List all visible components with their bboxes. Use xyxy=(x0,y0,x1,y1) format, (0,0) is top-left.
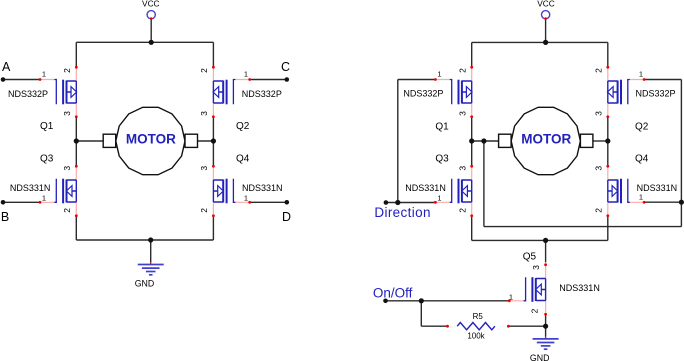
junction VCC rail xyxy=(149,40,154,45)
wire right leg upper xyxy=(212,42,214,67)
wire top rail xyxy=(472,41,608,43)
svg-text:Q4: Q4 xyxy=(236,154,250,165)
wire motor right stub xyxy=(593,140,608,142)
wire left gate tie top xyxy=(398,79,436,81)
svg-text:R5: R5 xyxy=(473,312,484,321)
transistor Q2 NDS332P (right circuit) xyxy=(606,66,645,118)
junction motor left node xyxy=(74,138,79,143)
svg-text:3: 3 xyxy=(458,111,468,116)
wire right leg middle xyxy=(607,117,609,166)
junction right gate tie xyxy=(679,200,684,205)
svg-text:2: 2 xyxy=(458,68,468,73)
wire cross coupling horizontal xyxy=(484,226,682,228)
transistor Q1 NDS332P (right circuit) xyxy=(434,66,473,118)
power VCC xyxy=(147,11,155,20)
wire R5 left lead xyxy=(421,325,447,327)
svg-text:2: 2 xyxy=(199,208,209,213)
svg-text:3: 3 xyxy=(199,111,209,116)
junction source rail to Q5 xyxy=(543,238,548,243)
wire output C xyxy=(250,79,287,81)
svg-text:2: 2 xyxy=(594,68,604,73)
svg-text:3: 3 xyxy=(594,111,604,116)
svg-text:2: 2 xyxy=(199,68,209,73)
wire VCC stem xyxy=(150,19,152,43)
wire cross coupling vertical xyxy=(483,141,485,227)
wire right gate tie top xyxy=(644,79,681,81)
wire left leg lower xyxy=(471,216,473,240)
wire bottom rail xyxy=(472,239,608,241)
junction On/Off to R5 xyxy=(419,298,424,303)
svg-text:B: B xyxy=(1,210,9,224)
transistor Q2 NDS332P xyxy=(212,66,251,118)
svg-text:VCC: VCC xyxy=(142,0,160,8)
svg-text:NDS331N: NDS331N xyxy=(242,183,283,193)
wire right leg upper xyxy=(607,42,609,67)
terminal B xyxy=(1,200,6,205)
junction Direction tie xyxy=(395,200,400,205)
svg-text:VCC: VCC xyxy=(537,0,555,8)
wire R5 branch down xyxy=(420,301,422,326)
svg-text:3: 3 xyxy=(594,166,604,171)
svg-text:1: 1 xyxy=(42,193,46,202)
svg-text:1: 1 xyxy=(437,193,441,202)
svg-text:Q3: Q3 xyxy=(435,154,449,165)
svg-text:NDS331N: NDS331N xyxy=(559,283,600,293)
svg-text:1: 1 xyxy=(244,193,248,202)
wire motor left stub xyxy=(472,140,499,142)
ground xyxy=(138,262,164,275)
junction ground rail xyxy=(148,237,153,242)
terminal C xyxy=(285,77,290,82)
svg-text:3: 3 xyxy=(458,166,468,171)
svg-text:Q2: Q2 xyxy=(635,122,649,133)
svg-text:2: 2 xyxy=(594,208,604,213)
svg-text:NDS331N: NDS331N xyxy=(405,183,446,193)
motor M2 xyxy=(499,107,593,174)
wire R5 right lead xyxy=(508,325,545,327)
wire On/Off xyxy=(386,300,510,302)
wire left gate tie vertical xyxy=(397,80,399,203)
terminal Direction xyxy=(384,200,389,205)
svg-text:Direction: Direction xyxy=(374,205,430,220)
wire right leg lower xyxy=(212,216,214,240)
wire Q5 drain xyxy=(545,240,547,262)
transistor Q3 NDS331N (right circuit) xyxy=(434,165,473,217)
svg-text:A: A xyxy=(2,60,11,74)
svg-text:NDS332P: NDS332P xyxy=(8,89,48,99)
svg-text:C: C xyxy=(281,60,290,74)
junction Q5 source GND xyxy=(543,324,548,329)
svg-text:1: 1 xyxy=(639,70,643,79)
svg-text:Q3: Q3 xyxy=(40,154,54,165)
svg-text:1: 1 xyxy=(437,70,441,79)
svg-text:3: 3 xyxy=(62,166,72,171)
svg-text:Q4: Q4 xyxy=(635,154,649,165)
wire left leg upper xyxy=(471,42,473,67)
resistor R5 xyxy=(446,323,510,330)
wire GND stem xyxy=(545,326,547,336)
wire motor right stub xyxy=(197,140,213,142)
power VCC (right) xyxy=(542,11,550,20)
junction cross-coupling tap xyxy=(481,138,486,143)
svg-text:1: 1 xyxy=(639,193,643,202)
svg-text:NDS331N: NDS331N xyxy=(10,183,51,193)
svg-text:NDS332P: NDS332P xyxy=(242,89,282,99)
svg-text:NDS332P: NDS332P xyxy=(403,88,443,98)
wire input A xyxy=(3,79,40,81)
motor M1 xyxy=(103,107,197,174)
wire right leg middle xyxy=(212,117,214,166)
svg-text:Q5: Q5 xyxy=(523,252,537,263)
svg-text:Q2: Q2 xyxy=(236,121,250,132)
wire Direction xyxy=(386,202,436,204)
svg-text:100k: 100k xyxy=(467,332,485,341)
svg-text:MOTOR: MOTOR xyxy=(126,132,176,147)
terminal On/Off xyxy=(383,299,388,304)
junction motor left node (right) xyxy=(469,138,474,143)
svg-text:Q1: Q1 xyxy=(40,121,54,132)
wire Q4 gate xyxy=(644,201,681,203)
svg-text:2: 2 xyxy=(458,208,468,213)
ground (right) xyxy=(533,337,559,350)
wire motor left stub xyxy=(76,140,103,142)
wire left leg upper xyxy=(75,42,77,67)
svg-text:2: 2 xyxy=(62,68,72,73)
wire Q5 source xyxy=(545,314,547,326)
svg-text:Q1: Q1 xyxy=(435,122,449,133)
junction motor right node xyxy=(211,138,216,143)
wire top rail xyxy=(76,41,213,43)
svg-text:NDS332P: NDS332P xyxy=(636,88,676,98)
terminal A xyxy=(1,77,6,82)
svg-text:MOTOR: MOTOR xyxy=(521,132,571,147)
svg-text:D: D xyxy=(282,210,291,224)
junction VCC rail (right) xyxy=(543,40,548,45)
svg-text:3: 3 xyxy=(62,111,72,116)
wire input B xyxy=(3,201,40,203)
wire right gate tie vertical xyxy=(680,80,682,227)
wire GND stem xyxy=(150,240,152,262)
transistor Q1 NDS332P xyxy=(39,66,78,118)
svg-text:3: 3 xyxy=(199,166,209,171)
transistor Q4 NDS331N xyxy=(212,165,251,217)
svg-text:1: 1 xyxy=(42,70,46,79)
svg-text:On/Off: On/Off xyxy=(373,286,413,301)
transistor Q3 NDS331N xyxy=(39,165,78,217)
junction motor right node (right) xyxy=(605,138,610,143)
svg-text:2: 2 xyxy=(62,208,72,213)
transistor Q5 NDS331N xyxy=(508,263,547,315)
svg-text:GND: GND xyxy=(530,353,550,361)
wire output D xyxy=(250,201,287,203)
wire right leg lower xyxy=(607,216,609,240)
terminal D xyxy=(285,200,290,205)
svg-text:1: 1 xyxy=(244,70,248,79)
svg-text:3: 3 xyxy=(531,265,541,270)
transistor Q4 NDS331N (right circuit) xyxy=(606,165,645,217)
wire VCC stem xyxy=(545,19,547,43)
wire left leg middle xyxy=(75,117,77,166)
svg-text:2: 2 xyxy=(529,308,539,313)
wire bottom rail xyxy=(76,239,213,241)
wire left leg middle xyxy=(471,117,473,166)
svg-text:1: 1 xyxy=(509,292,513,301)
wire left leg lower xyxy=(75,216,77,240)
svg-text:GND: GND xyxy=(135,279,155,289)
